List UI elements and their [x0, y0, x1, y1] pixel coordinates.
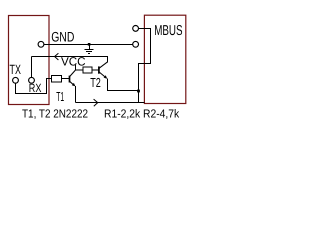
- transistor T1: [70, 70, 76, 85]
- wire T1 emitter down: [75, 86, 77, 102]
- wire R2 to T2 base: [92, 69, 99, 71]
- arrowhead TX direction: [94, 99, 98, 106]
- wire VCC riser: [75, 65, 77, 70]
- resistor R2: [83, 67, 92, 73]
- resistor R1: [52, 76, 62, 82]
- svg-text:VCC: VCC: [61, 55, 86, 69]
- node TX terminal circle: [13, 77, 19, 83]
- arrowhead T2 emitter: [104, 75, 108, 79]
- node MBUS bottom terminal circle: [133, 41, 139, 47]
- transistor T2: [99, 62, 107, 78]
- arrowhead RX direction: [55, 53, 59, 60]
- wire R1 to T1 base: [61, 78, 69, 80]
- wire VCC rail: [32, 57, 108, 63]
- arrowhead T1 emitter: [72, 83, 76, 87]
- wire VCC junction to R2: [76, 69, 84, 71]
- wire T2 emitter to junction: [108, 78, 139, 90]
- svg-text:T2: T2: [90, 75, 101, 90]
- wire GND horizontal: [44, 44, 133, 46]
- wire bottom rail to MBUS box: [76, 102, 145, 104]
- wire T2 collector riser: [107, 57, 109, 63]
- svg-text:GND: GND: [51, 29, 74, 44]
- svg-text:T1: T1: [56, 89, 64, 104]
- MBUS device box: [144, 15, 185, 103]
- svg-text:MBUS: MBUS: [154, 23, 182, 39]
- svg-text:R1-2,2k R2-4,7k: R1-2,2k R2-4,7k: [104, 108, 179, 121]
- node RX terminal circle: [29, 77, 35, 83]
- wire MBUS top loop: [139, 29, 151, 103]
- junction dot MBUS net: [137, 90, 140, 93]
- left device box: [9, 16, 50, 105]
- svg-text:T1, T2 2N2222: T1, T2 2N2222: [22, 108, 88, 121]
- wire RX riser: [31, 57, 33, 78]
- ground symbol: [85, 45, 94, 54]
- node MBUS top terminal circle: [133, 26, 139, 32]
- junction dot ground tap: [88, 43, 91, 46]
- wire TX to R1: [16, 79, 52, 94]
- node GND terminal circle: [38, 41, 44, 47]
- svg-text:TX: TX: [10, 62, 21, 77]
